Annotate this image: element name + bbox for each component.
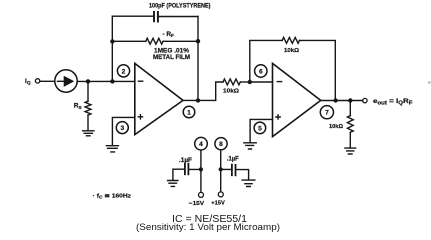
svg-text:+15V: +15V (211, 201, 225, 207)
svg-text:−15V: −15V (189, 201, 204, 207)
svg-text:1: 1 (187, 109, 191, 116)
svg-text:6: 6 (259, 68, 263, 75)
svg-text:3: 3 (120, 125, 124, 132)
svg-text:IQ: IQ (25, 78, 31, 86)
svg-text:(Sensitivity: 1 Volt per Micro: (Sensitivity: 1 Volt per Microamp) (136, 222, 280, 232)
svg-text:10kΩ: 10kΩ (284, 48, 299, 54)
svg-text:4: 4 (199, 141, 203, 148)
svg-text:· fC ≅ 160Hz: · fC ≅ 160Hz (93, 194, 132, 200)
svg-text:.1µF: .1µF (179, 158, 192, 164)
svg-text:METAL FILM: METAL FILM (153, 54, 190, 61)
svg-text:- RF: - RF (163, 31, 175, 39)
svg-text:10kΩ: 10kΩ (223, 89, 239, 95)
svg-text:8: 8 (219, 141, 223, 148)
svg-text:10kΩ: 10kΩ (329, 124, 343, 130)
svg-text:2: 2 (122, 68, 126, 75)
svg-text:RS: RS (74, 103, 83, 111)
svg-text:100pF (POLYSTYRENE): 100pF (POLYSTYRENE) (149, 3, 211, 10)
svg-text:5: 5 (258, 125, 262, 132)
svg-text:7: 7 (325, 110, 329, 117)
svg-text:.1µF: .1µF (227, 156, 239, 162)
svg-text:eout = IQRF: eout = IQRF (373, 98, 413, 106)
